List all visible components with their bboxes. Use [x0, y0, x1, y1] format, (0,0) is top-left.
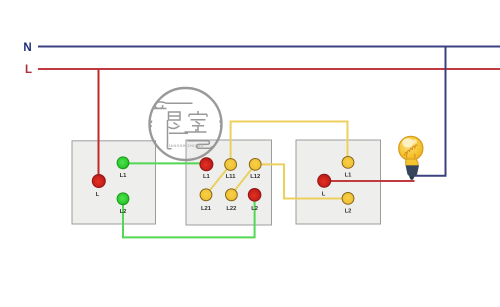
wire green SW2.L2 stub — [254, 195, 256, 201]
svg-text:L22: L22 — [226, 206, 236, 212]
wire N drop to lamp — [414, 47, 446, 176]
wire yellow diagonal L22-L12 — [231, 165, 255, 195]
lamp bulb — [399, 136, 423, 180]
terminal SW3 L — [318, 174, 331, 187]
wire yellow diagonal L21-L11 — [206, 165, 230, 195]
wire green SW1.L2 down and to SW2.L2 — [123, 195, 255, 237]
lamp glass — [399, 136, 423, 160]
terminal SW1 L2 — [117, 193, 129, 205]
lamp base tip — [409, 176, 415, 180]
terminal SW2 L11 — [225, 159, 237, 171]
wire L drop to SW1 L — [98, 69, 100, 181]
switch box SW1 — [72, 141, 156, 224]
svg-text:L: L — [96, 192, 100, 198]
lamp base — [406, 165, 419, 177]
watermark side ticks — [151, 121, 221, 128]
svg-text:LIANGSHIZHIZAO: LIANGSHIZHIZAO — [166, 144, 204, 148]
wire yellow SW2.L11 up over to SW3.L1 — [231, 122, 348, 165]
svg-text:L21: L21 — [201, 206, 212, 212]
svg-text:L1: L1 — [203, 174, 211, 180]
terminal SW3 L2 — [342, 193, 354, 205]
wire yellow SW2.L12 to SW3.L2 — [255, 164, 348, 198]
svg-text:L2: L2 — [345, 209, 352, 215]
terminal SW2 L12 — [249, 159, 261, 171]
terminal SW3 L1 — [342, 157, 354, 169]
terminal SW2 L21 — [200, 189, 212, 201]
lamp filament — [405, 145, 418, 156]
terminal SW2 L2 — [248, 189, 261, 202]
switch box SW3 — [296, 140, 381, 224]
wire green SW1.L1 to SW2.L1 — [123, 162, 206, 164]
switch box SW2 — [186, 140, 272, 225]
svg-text:L2: L2 — [251, 206, 258, 212]
svg-text:L12: L12 — [250, 174, 260, 180]
terminal SW1 L — [92, 175, 105, 188]
svg-text:L1: L1 — [345, 172, 353, 178]
terminal SW2 L22 — [226, 189, 238, 201]
watermark char 室 — [185, 111, 208, 132]
terminal SW2 L1 — [200, 158, 213, 171]
wire red SW3.L to lamp — [324, 180, 414, 182]
svg-text:L: L — [322, 191, 326, 197]
watermark logo circle — [150, 88, 222, 160]
svg-text:L1: L1 — [120, 173, 128, 179]
lamp neck — [406, 159, 419, 166]
watermark scroll bottom-right — [187, 141, 212, 149]
watermark char 良 — [168, 112, 189, 149]
svg-text:L: L — [25, 64, 32, 76]
watermark cloud top-left — [153, 102, 193, 109]
svg-text:L11: L11 — [226, 174, 236, 180]
wire N rail — [38, 46, 500, 48]
svg-text:L2: L2 — [120, 209, 127, 215]
wire L rail — [38, 68, 500, 70]
terminal SW1 L1 — [117, 157, 129, 169]
lamp highlight — [402, 138, 413, 147]
svg-text:N: N — [23, 42, 31, 54]
